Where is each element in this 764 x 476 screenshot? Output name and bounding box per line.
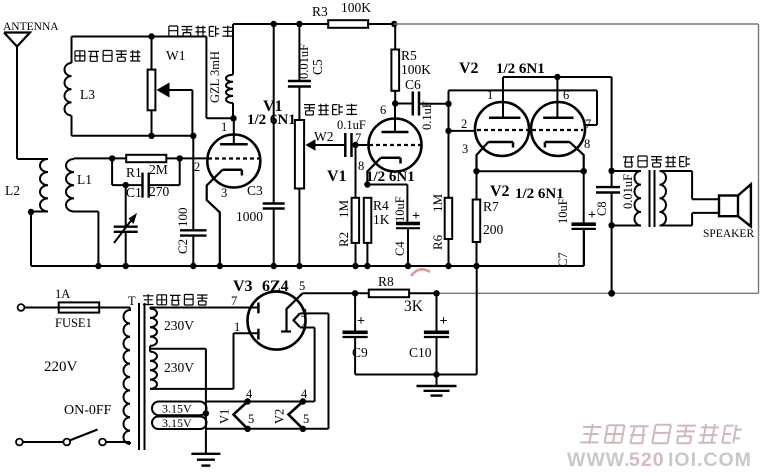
wire L1 bottom to ground bus: [74, 212, 102, 270]
svg-text:10uF: 10uF: [393, 196, 407, 222]
svg-text:520: 520: [629, 449, 665, 471]
wire V2 plates to output transformer: [503, 74, 612, 171]
watermark url: [567, 449, 752, 471]
switch ON-OFF: [23, 403, 112, 445]
svg-text:100K: 100K: [401, 62, 431, 77]
svg-text:+: +: [357, 314, 365, 329]
svg-text:1/2 6N1: 1/2 6N1: [496, 61, 545, 77]
svg-text:C9: C9: [352, 345, 368, 360]
svg-text:+: +: [412, 209, 420, 224]
wire heater top: [205, 398, 315, 404]
svg-text:10uF: 10uF: [556, 198, 570, 224]
svg-text:C5: C5: [310, 59, 325, 75]
tube V3 6Z4: [231, 279, 308, 350]
svg-text:ANTENNA: ANTENNA: [3, 21, 59, 33]
heater V1: [218, 387, 255, 429]
capacitor C2 100: [175, 136, 207, 269]
svg-text:T: T: [128, 294, 136, 308]
capacitor C6 0.1uF: [395, 77, 448, 130]
wire V1 cathode to ground bus: [207, 170, 223, 269]
capacitor C7 10uF: [556, 171, 596, 267]
capacitor C4 10uF: [393, 196, 420, 269]
wire L3 top to plate node: [206, 37, 233, 119]
resistor R7 200: [473, 171, 504, 269]
transformer core: [139, 303, 145, 450]
watermark red mark: [411, 269, 430, 276]
watermark site name: [580, 424, 742, 444]
svg-text:C1: C1: [126, 185, 142, 200]
capacitor C9: [343, 293, 369, 374]
svg-text:V1: V1: [327, 168, 347, 185]
wire transformer primary to B+ rail: [611, 225, 613, 293]
svg-text:ON-0FF: ON-0FF: [64, 403, 112, 418]
wire V1 pin8 cathode to R4 C4: [364, 158, 407, 222]
transformer heater winding 3.15V upper: [152, 402, 207, 416]
resistor R3 100K: [312, 0, 371, 28]
svg-text:0.01uF: 0.01uF: [621, 174, 635, 209]
svg-text:V2: V2: [459, 60, 479, 77]
svg-text:100K: 100K: [341, 0, 371, 15]
tube V1 second half 6N1: [355, 103, 422, 173]
svg-text:1A: 1A: [55, 287, 70, 301]
tube V2 second half 6N1: [531, 77, 591, 156]
inductor L3: [65, 37, 96, 136]
svg-text:5: 5: [303, 412, 309, 426]
wire L3 loop bottom: [72, 133, 197, 139]
svg-text:8: 8: [584, 137, 590, 151]
terminal 220V live: [18, 304, 25, 311]
svg-text:IOI.COM: IOI.COM: [668, 449, 752, 471]
capacitor C1 270: [112, 158, 180, 200]
svg-text:C6: C6: [405, 77, 421, 92]
transformer HV winding 230V upper: [150, 308, 194, 346]
wire V3 filament pin 4: [300, 328, 315, 402]
label RF choke: [169, 26, 233, 37]
svg-text:220V: 220V: [44, 359, 78, 375]
svg-text:C7: C7: [556, 252, 570, 267]
svg-text:4: 4: [301, 387, 308, 401]
label volume adjust: [304, 104, 357, 116]
svg-text:R6: R6: [430, 234, 445, 250]
svg-text:3: 3: [462, 142, 468, 156]
potentiometer W1: [148, 37, 186, 136]
svg-text:7: 7: [231, 294, 237, 308]
svg-text:4: 4: [246, 387, 253, 401]
svg-text:4: 4: [301, 319, 308, 333]
svg-text:270: 270: [149, 184, 170, 199]
resistor R8 3K: [369, 274, 440, 315]
svg-text:L2: L2: [5, 183, 20, 198]
wire heater bottom: [205, 426, 329, 432]
svg-text:3: 3: [221, 186, 227, 200]
wire L3 loop top: [72, 33, 207, 39]
capacitor C10: [409, 293, 449, 374]
wire HV center tap: [150, 346, 206, 454]
svg-text:V2: V2: [273, 409, 287, 424]
svg-text:0.1uF: 0.1uF: [420, 101, 434, 130]
inductor GZL 3mH choke: [208, 24, 237, 122]
svg-text:0.1uF: 0.1uF: [337, 118, 366, 132]
svg-text:0.01uF: 0.01uF: [297, 44, 311, 79]
svg-text:100: 100: [175, 208, 190, 228]
label V1 1/2 6N1 second: [327, 168, 415, 185]
svg-text:R7: R7: [483, 199, 499, 214]
wire W1 wiper: [168, 90, 192, 136]
svg-text:5: 5: [248, 412, 254, 426]
wire B+ rail: [394, 24, 758, 297]
svg-text:1000: 1000: [236, 209, 263, 224]
resistor R5 100K: [391, 21, 431, 107]
svg-text:C2: C2: [175, 239, 190, 254]
label V3 6Z4: [233, 278, 289, 295]
transformer T power primary: [123, 294, 136, 444]
transformer output: [612, 170, 719, 227]
svg-text:2: 2: [194, 160, 200, 174]
svg-text:C3: C3: [247, 183, 263, 198]
svg-text:L3: L3: [80, 87, 95, 102]
svg-text:1M: 1M: [336, 200, 351, 219]
svg-text:3.15V: 3.15V: [162, 402, 192, 416]
svg-text:1: 1: [487, 88, 493, 102]
resistor R1 2M: [126, 155, 168, 180]
svg-text:C10: C10: [409, 345, 432, 360]
wire W2 wiper to coupling cap: [314, 144, 346, 146]
wire V3 plate 7 to HV winding: [150, 307, 258, 309]
svg-text:R3: R3: [312, 4, 328, 19]
fuse FUSE1 1A: [25, 287, 100, 330]
wire fuse to transformer: [99, 308, 130, 312]
tube V2 first half 6N1: [461, 77, 529, 156]
svg-text:1: 1: [234, 320, 240, 334]
resistor R4 1K: [364, 198, 390, 269]
resistor R2 1M: [336, 145, 359, 269]
capacitor C3 1000: [236, 21, 285, 269]
wire top B+ bus: [233, 21, 394, 27]
svg-text:7: 7: [585, 117, 591, 131]
heater V2: [273, 387, 310, 429]
junction heater center: [203, 410, 209, 416]
svg-text:230V: 230V: [164, 318, 194, 333]
svg-text:R1: R1: [126, 165, 142, 180]
svg-text:3K: 3K: [404, 298, 424, 315]
svg-text:L1: L1: [77, 172, 92, 187]
svg-text:C4: C4: [393, 241, 407, 256]
antenna: [3, 21, 59, 47]
svg-text:6: 6: [563, 88, 569, 102]
svg-text:2: 2: [461, 117, 467, 131]
variable capacitor tuning: [114, 182, 138, 269]
svg-text:SPEAKER: SPEAKER: [703, 228, 754, 240]
svg-text:200: 200: [483, 222, 504, 237]
svg-text:GZL 3mH: GZL 3mH: [208, 51, 222, 103]
capacitor 0.1uF coupling: [337, 118, 366, 157]
speaker: [703, 184, 754, 240]
wire ground bus: [31, 229, 584, 266]
terminal 220V neutral: [16, 439, 23, 446]
wire R1 right to V1 grid pin 2: [166, 155, 208, 161]
capacitor C8 0.01uF: [595, 168, 635, 229]
transformer HV winding 230V lower: [150, 352, 194, 389]
label V2 1/2 6N1 top: [459, 60, 545, 77]
svg-text:7: 7: [355, 131, 361, 145]
potentiometer W2 volume: [295, 87, 334, 270]
svg-text:1K: 1K: [373, 212, 390, 227]
ground mains: [191, 453, 220, 455]
capacitor C5 0.01uF: [288, 24, 325, 87]
inductor L1: [66, 159, 92, 212]
svg-text:R2: R2: [336, 232, 351, 247]
wire coupling cap to V1 pin 7: [352, 142, 369, 148]
svg-text:FUSE1: FUSE1: [55, 316, 92, 330]
svg-text:W1: W1: [166, 48, 186, 63]
svg-text:8: 8: [358, 159, 364, 173]
svg-text:5: 5: [299, 279, 305, 293]
svg-text:R5: R5: [401, 48, 417, 63]
svg-text:6: 6: [380, 103, 386, 117]
wire L2 bottom to ground bus: [28, 209, 48, 266]
transformer heater winding 3.15V lower: [152, 416, 207, 430]
svg-text:1/2 6N1: 1/2 6N1: [366, 169, 415, 185]
svg-text:W2: W2: [314, 129, 334, 144]
wire V3 filament pin 3: [300, 313, 329, 428]
label regeneration adjust: [75, 50, 140, 61]
svg-text:1/2 6N1: 1/2 6N1: [247, 112, 296, 128]
inductor L2: [5, 159, 48, 212]
label V2 1/2 6N1 bottom: [490, 183, 564, 202]
wire L1 top to grid line: [74, 155, 126, 161]
svg-text:WWW.: WWW.: [567, 449, 631, 471]
label output transformer: [623, 156, 690, 167]
svg-text:1: 1: [221, 120, 227, 134]
svg-text:C8: C8: [595, 201, 609, 216]
wire switch to transformer: [106, 442, 130, 444]
svg-text:V1: V1: [218, 409, 232, 424]
resistor R6 1M: [430, 194, 452, 270]
svg-text:230V: 230V: [164, 360, 194, 375]
svg-text:R8: R8: [378, 274, 394, 289]
wire V2 grid net: [445, 90, 597, 197]
svg-text:2M: 2M: [149, 162, 168, 177]
wire antenna to L2: [17, 45, 48, 159]
label V1 1/2 6N1: [247, 98, 296, 128]
ground filter: [417, 375, 457, 396]
svg-text:1M: 1M: [430, 194, 445, 213]
svg-text:3.15V: 3.15V: [162, 416, 192, 430]
wire V3 cathode pin 5 to R8: [303, 290, 369, 296]
label power transformer: [143, 294, 208, 305]
wire filter ground: [355, 266, 477, 378]
svg-text:+: +: [440, 314, 448, 329]
wire V3 plate 1 to HV winding: [150, 333, 258, 389]
svg-text:R4: R4: [373, 198, 389, 213]
svg-text:V2: V2: [490, 183, 510, 200]
tube V1 first half 6N1: [194, 118, 260, 200]
svg-text:V3: V3: [233, 278, 253, 295]
wire V2 cathodes: [473, 142, 587, 174]
